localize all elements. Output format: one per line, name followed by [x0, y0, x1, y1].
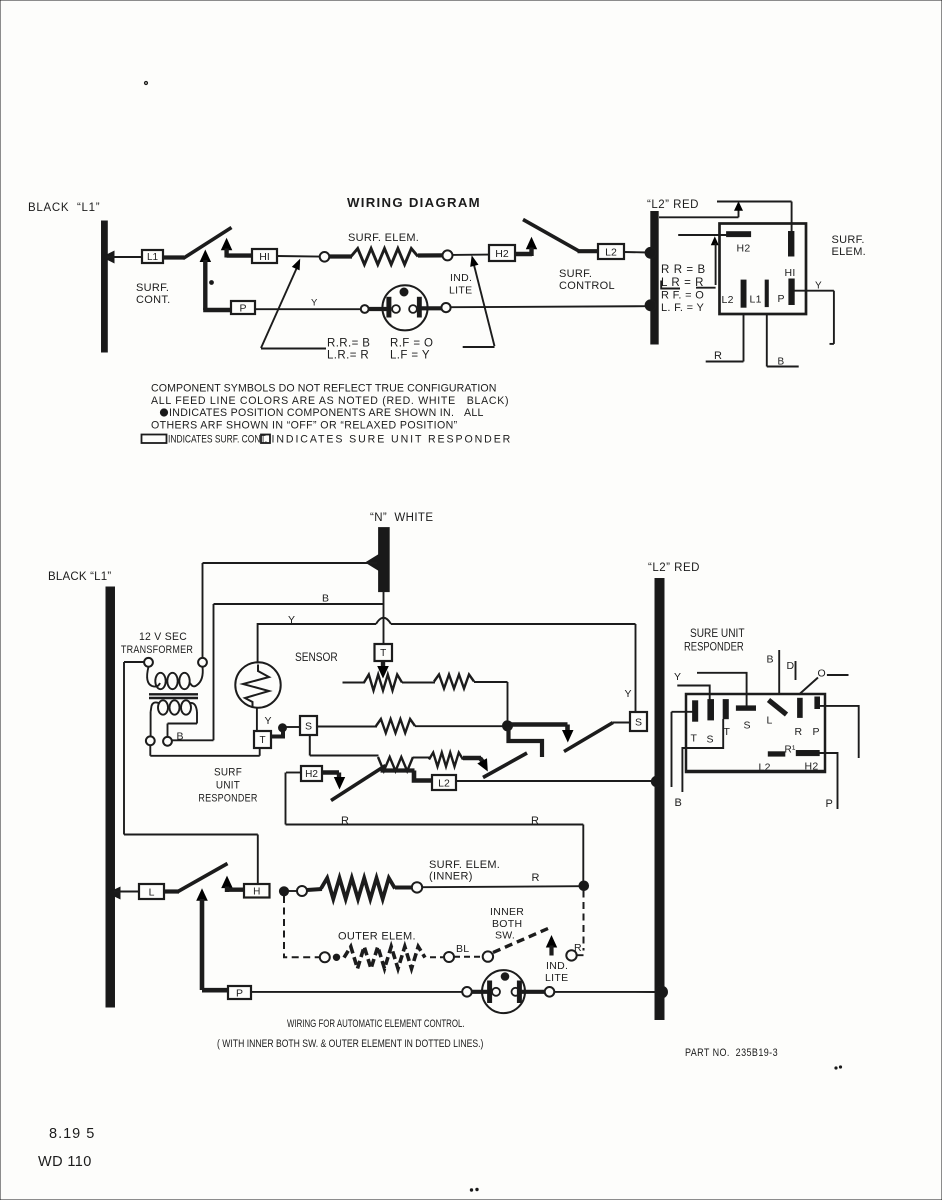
svg-text:P: P	[778, 293, 785, 305]
svg-text:L1: L1	[750, 294, 762, 306]
svg-text:Y: Y	[815, 281, 822, 292]
svg-text:SURF.: SURF.	[136, 282, 169, 294]
svg-text:P: P	[813, 726, 820, 738]
svg-text:“L2” RED: “L2” RED	[648, 562, 700, 574]
svg-text:BOTH: BOTH	[492, 918, 522, 930]
svg-text:8.19 5: 8.19 5	[49, 1126, 95, 1142]
svg-text:SURF.: SURF.	[832, 234, 865, 246]
svg-text:Y: Y	[265, 715, 272, 727]
svg-text:S: S	[635, 716, 642, 728]
svg-text:T: T	[724, 726, 731, 738]
svg-text:OUTER ELEM.: OUTER ELEM.	[338, 931, 416, 943]
svg-text:“L2” RED: “L2” RED	[647, 199, 699, 211]
svg-text:P: P	[239, 302, 246, 314]
svg-text:INNER: INNER	[490, 906, 524, 918]
svg-text:L2: L2	[438, 777, 450, 789]
svg-text:LITE: LITE	[545, 972, 568, 984]
svg-text:COMPONENT SYMBOLS DO NOT REFLE: COMPONENT SYMBOLS DO NOT REFLECT TRUE CO…	[151, 383, 497, 395]
svg-text:B: B	[322, 593, 329, 605]
svg-text:Y: Y	[625, 688, 632, 700]
svg-text:IND.: IND.	[450, 272, 472, 284]
svg-text:R F. = O: R F. = O	[661, 290, 704, 302]
svg-text:L2: L2	[722, 294, 734, 306]
svg-text:SENSOR: SENSOR	[295, 651, 338, 664]
svg-text:L1: L1	[147, 252, 159, 263]
svg-text:WIRING FOR AUTOMATIC ELEMENT C: WIRING FOR AUTOMATIC ELEMENT CONTROL.	[287, 1018, 465, 1031]
svg-text:12 V SEC: 12 V SEC	[139, 631, 187, 643]
svg-text:CONT.: CONT.	[136, 294, 171, 306]
svg-text:SW.: SW.	[495, 930, 515, 942]
svg-text:Y: Y	[674, 671, 681, 683]
svg-text:R: R	[574, 942, 582, 954]
svg-text:SURF. ELEM.: SURF. ELEM.	[429, 859, 500, 871]
svg-text:R¹: R¹	[785, 745, 797, 756]
svg-text:Y: Y	[288, 614, 295, 626]
svg-text:SURF. ELEM.: SURF. ELEM.	[348, 232, 419, 244]
svg-text:R: R	[795, 726, 803, 738]
svg-text:R: R	[531, 815, 539, 827]
svg-text:L2: L2	[759, 762, 771, 774]
svg-text:L.R.= R: L.R.= R	[327, 350, 369, 362]
svg-text:S: S	[744, 720, 751, 732]
svg-text:L. F. = Y: L. F. = Y	[661, 302, 705, 314]
svg-text:RESPONDER: RESPONDER	[198, 793, 257, 805]
svg-text:PART NO. 235B19-3: PART NO. 235B19-3	[685, 1047, 778, 1059]
svg-text:B: B	[675, 797, 683, 809]
svg-text:HI: HI	[259, 251, 270, 263]
svg-text:T: T	[380, 648, 386, 659]
svg-text:R: R	[532, 872, 540, 884]
svg-text:R: R	[714, 350, 722, 362]
svg-text:HI: HI	[785, 267, 796, 279]
svg-text:L: L	[767, 715, 773, 727]
svg-text:L2: L2	[605, 246, 617, 258]
svg-text:Y: Y	[311, 298, 318, 309]
svg-text:TRANSFORMER: TRANSFORMER	[121, 644, 193, 656]
svg-text:L R = R: L R = R	[661, 277, 704, 289]
svg-text:LITE: LITE	[449, 285, 472, 297]
svg-text:ALL FEED LINE COLORS ARE AS NO: ALL FEED LINE COLORS ARE AS NOTED (RED. …	[151, 395, 509, 407]
svg-text:INDICATES SURF. CONT.: INDICATES SURF. CONT.	[168, 434, 267, 446]
svg-text:CONTROL: CONTROL	[559, 280, 615, 292]
svg-text:INDICATES SURE UNIT RESPONDER: INDICATES SURE UNIT RESPONDER	[272, 434, 513, 446]
svg-text:R.F = O: R.F = O	[390, 338, 433, 350]
svg-text:SURE UNIT: SURE UNIT	[690, 627, 745, 640]
svg-text:BLACK “L1”: BLACK “L1”	[48, 571, 111, 583]
svg-text:(INNER): (INNER)	[429, 871, 473, 883]
svg-text:BL: BL	[456, 943, 469, 955]
svg-text:“N” WHITE: “N” WHITE	[370, 512, 433, 524]
svg-text:INDICATES POSITION COMPONENTS: INDICATES POSITION COMPONENTS ARE SHOWN …	[169, 407, 484, 419]
svg-text:H2: H2	[805, 761, 819, 773]
svg-text:R R = B: R R = B	[661, 264, 706, 276]
svg-text:SURF: SURF	[214, 767, 242, 779]
svg-text:( WITH INNER BOTH SW. & OUTER: ( WITH INNER BOTH SW. & OUTER ELEMENT IN…	[217, 1038, 483, 1050]
svg-text:D: D	[787, 660, 795, 672]
svg-text:S: S	[305, 720, 312, 732]
svg-text:H2: H2	[305, 769, 318, 780]
svg-text:O: O	[818, 668, 826, 680]
svg-text:B: B	[778, 357, 785, 368]
svg-text:BLACK “L1”: BLACK “L1”	[28, 202, 100, 214]
svg-text:R: R	[341, 815, 349, 827]
svg-text:T: T	[259, 735, 265, 746]
svg-text:H2: H2	[495, 248, 509, 260]
svg-text:IND.: IND.	[546, 960, 568, 972]
svg-text:H: H	[253, 886, 260, 897]
svg-text:WD 110: WD 110	[38, 1154, 92, 1170]
svg-text:R.R.= B: R.R.= B	[327, 338, 370, 350]
svg-text:P: P	[826, 798, 834, 810]
svg-text:SURF.: SURF.	[559, 268, 592, 280]
svg-text:ELEM.: ELEM.	[832, 246, 867, 258]
svg-text:L: L	[149, 886, 155, 898]
svg-text:WIRING DIAGRAM: WIRING DIAGRAM	[347, 195, 481, 210]
svg-text:RESPONDER: RESPONDER	[684, 641, 744, 654]
svg-text:S: S	[707, 734, 714, 746]
svg-text:T: T	[691, 733, 698, 745]
svg-text:L.F = Y: L.F = Y	[390, 350, 430, 362]
svg-text:H2: H2	[737, 243, 751, 255]
svg-text:B: B	[767, 654, 774, 666]
svg-text:P: P	[236, 987, 243, 999]
svg-text:OTHERS ARF SHOWN IN “OFF” OR “: OTHERS ARF SHOWN IN “OFF” OR “RELAXED PO…	[151, 419, 458, 431]
svg-text:UNIT: UNIT	[216, 780, 240, 792]
